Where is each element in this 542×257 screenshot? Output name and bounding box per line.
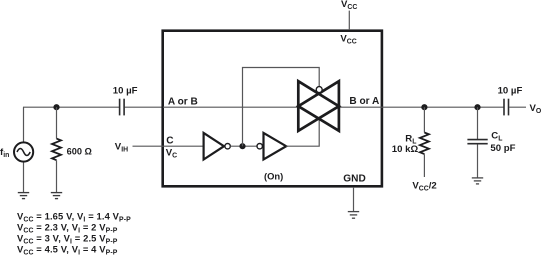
wire: buffer output to bottom gate <box>286 117 319 146</box>
svg-text:A or B: A or B <box>168 96 198 107</box>
svg-text:C: C <box>166 136 174 147</box>
svg-text:10 µF: 10 µF <box>498 86 523 97</box>
wire: VIH control input to inverter <box>133 145 204 147</box>
wire: cap to Vo <box>509 106 526 108</box>
wire: Vcc to box <box>348 11 350 30</box>
bubble: inverter U1a output <box>225 144 230 149</box>
wire: fin source to main line <box>23 107 25 141</box>
capacitor C2 10uF output coupling <box>504 99 509 116</box>
svg-text:GND: GND <box>343 174 365 185</box>
svg-text:VC: VC <box>166 147 177 159</box>
bubble: transmission gate control <box>316 87 322 93</box>
svg-text:(On): (On) <box>264 171 283 182</box>
svg-text:VCC: VCC <box>340 33 356 45</box>
wire: GND pin to ground <box>353 187 355 212</box>
node: junction CL <box>474 104 480 110</box>
svg-text:10 µF: 10 µF <box>113 86 138 97</box>
svg-text:VIH: VIH <box>115 141 128 153</box>
resistor R 600 ohm <box>52 139 61 161</box>
svg-text:CL: CL <box>491 130 502 142</box>
DUT box <box>163 31 382 187</box>
wire: fin source to ground <box>23 163 25 193</box>
wire: 600 ohm branch down <box>56 107 58 138</box>
svg-text:fin: fin <box>0 147 9 159</box>
svg-text:VCC/2: VCC/2 <box>412 180 436 192</box>
wire: CL branch down <box>477 107 479 139</box>
wire: main line inside box to switch <box>163 106 298 108</box>
capacitor C1 10uF input coupling <box>120 99 125 116</box>
transmission gate switch <box>298 81 339 131</box>
resistor RL 10k <box>420 133 429 155</box>
svg-text:VO: VO <box>530 103 542 115</box>
buffer U1b <box>264 133 287 160</box>
wire: control loop up and over to top gate <box>243 68 320 147</box>
source fin sine generator <box>14 142 33 161</box>
wire: inverter to buffer <box>230 145 257 147</box>
node: junction RL <box>421 104 427 110</box>
capacitor CL 50pF <box>467 140 487 144</box>
wire: RL to Vcc/2 <box>423 154 425 177</box>
wire: main input line to coupling cap <box>23 106 119 108</box>
wire: cap to box A or B pin <box>125 106 163 108</box>
wire: 600 ohm to ground <box>56 160 58 192</box>
ground: below fin source <box>18 193 29 199</box>
inverter U1a <box>204 133 224 160</box>
svg-text:600 Ω: 600 Ω <box>67 147 92 157</box>
svg-text:10 kΩ: 10 kΩ <box>392 144 419 155</box>
ground: below CL <box>472 178 483 184</box>
svg-text:50 pF: 50 pF <box>490 143 515 154</box>
wire: RL branch down <box>423 107 425 132</box>
node: control junction <box>239 143 245 149</box>
ground: below 600 ohm <box>51 193 62 199</box>
ground: GND pin <box>348 212 359 219</box>
svg-text:VCC: VCC <box>341 0 357 11</box>
svg-text:B or A: B or A <box>349 96 380 107</box>
node: junction fin/600ohm <box>53 104 59 110</box>
wire: B or A output line <box>381 106 504 108</box>
wire: CL to ground <box>477 144 479 177</box>
wire: switch to B or A pin <box>339 106 381 108</box>
bubble: buffer U1b input <box>257 144 262 149</box>
